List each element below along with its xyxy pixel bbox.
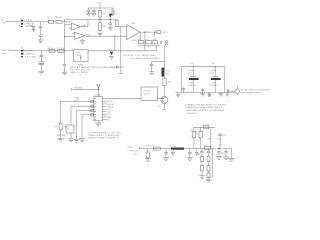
svg-text:CON10: CON10 xyxy=(94,95,102,97)
resistor R12 xyxy=(163,78,172,85)
capacitor C23 from node OUT xyxy=(217,149,220,157)
capacitor C40 xyxy=(188,63,199,92)
bead FB3 xyxy=(91,109,94,111)
ground below C11 xyxy=(62,72,68,75)
capacitor C8 xyxy=(39,35,43,40)
wire cap branch xyxy=(89,7,114,9)
wire J2 to gain box xyxy=(24,50,74,52)
svg-text:L1 10uH: L1 10uH xyxy=(145,145,153,147)
svg-text:GAIN = 1 + RB/RA: GAIN = 1 + RB/RA xyxy=(70,71,88,74)
wire node F stub xyxy=(154,32,156,36)
svg-text:2 RING NC: 2 RING NC xyxy=(24,23,35,25)
op-amp U1A xyxy=(65,23,86,30)
note text block psu xyxy=(186,103,227,114)
svg-text:10R: 10R xyxy=(196,154,200,156)
svg-text:SHORT AND TWIST ALL OF THE LEA: SHORT AND TWIST ALL OF THE LEADS xyxy=(186,109,225,112)
zobel box Z1 xyxy=(204,145,211,150)
ground C23 xyxy=(216,157,222,160)
ground below C2 xyxy=(86,14,91,16)
svg-text:35V: 35V xyxy=(188,73,192,75)
ground below arrow xyxy=(109,57,114,60)
wire U1A output xyxy=(81,20,89,27)
wire psu top branch xyxy=(152,61,165,63)
ground connector xyxy=(95,123,101,126)
wire stub at node A xyxy=(40,22,42,26)
resistor R11 xyxy=(54,124,69,130)
connector J1 xyxy=(21,18,24,27)
ground pin4 xyxy=(79,139,85,142)
capacitor sleeve bypass xyxy=(32,27,35,29)
capacitor C20 stub xyxy=(195,149,199,157)
chain x208.5: resistor R22 xyxy=(207,173,210,179)
wire R12 to Q1 xyxy=(164,86,166,97)
net arrow VB xyxy=(110,52,114,55)
wire U2 output xyxy=(140,31,157,33)
capacitor C4 xyxy=(111,8,115,13)
svg-text:35V: 35V xyxy=(210,73,214,75)
wire cap stub xyxy=(151,62,153,65)
connector right pin stubs xyxy=(103,99,107,120)
svg-text:R1 4k7: R1 4k7 xyxy=(56,17,63,19)
wire K1 to ground xyxy=(70,133,72,139)
wire pin3 drop xyxy=(76,110,78,139)
wire node D stub up xyxy=(155,46,157,51)
ground sleeve xyxy=(32,29,36,31)
capacitor C44 stub xyxy=(218,133,222,149)
wire C1 to R1 xyxy=(54,21,56,23)
capacitor C19 stub xyxy=(188,149,192,158)
svg-text:OUT: OUT xyxy=(217,138,222,140)
component row: capacitor C13 xyxy=(160,41,161,44)
wire U1B output to U2 xyxy=(85,35,127,37)
terminal bar Q1 xyxy=(163,109,166,111)
capacitor C12 xyxy=(117,66,118,69)
junction node OUT xyxy=(218,148,219,149)
svg-text:R13 4k7: R13 4k7 xyxy=(144,90,153,92)
component row: diode D1 xyxy=(138,39,144,44)
junction node G xyxy=(64,36,65,37)
wire R11 to ground xyxy=(60,130,62,138)
svg-text:OUT: OUT xyxy=(218,145,223,147)
note text U1 type xyxy=(123,54,161,60)
ground C44s xyxy=(225,93,229,97)
junction node E xyxy=(144,31,145,32)
wire J1 sleeve stub xyxy=(29,25,34,28)
wire mute chain xyxy=(70,106,72,125)
connector J3 xyxy=(94,95,103,121)
capacitor C41 xyxy=(210,63,221,92)
wire stub node C xyxy=(64,51,66,65)
resistor R7 (series) xyxy=(57,48,65,52)
bead FB1 xyxy=(91,100,94,102)
wire +15V rail xyxy=(99,4,101,11)
wire feed to J3 xyxy=(72,88,99,90)
svg-text:+ CAP: + CAP xyxy=(210,81,217,84)
connector J2 pin labels xyxy=(25,50,36,58)
svg-text:BIAS NET: BIAS NET xyxy=(57,134,67,137)
capacitor C16 electrolytic bar xyxy=(162,68,171,77)
wire IN-R to J2 xyxy=(11,50,21,52)
svg-text:TOGETHER.: TOGETHER. xyxy=(186,113,199,115)
pin name text column xyxy=(107,101,114,121)
terminal left xyxy=(139,147,140,150)
ground R11 xyxy=(58,138,64,141)
inductor L2 box xyxy=(202,124,211,128)
capacitor C2 xyxy=(87,8,91,13)
junction node F xyxy=(154,31,155,32)
resistor R23 input xyxy=(115,20,118,26)
net arrow VB top xyxy=(109,14,113,20)
note text gain xyxy=(70,66,118,74)
resistor R20 xyxy=(192,127,196,148)
wire IN-L to J1 xyxy=(6,20,21,22)
wire stub node B xyxy=(40,51,42,55)
ground below C5 xyxy=(108,28,113,30)
capacitor C18 stub xyxy=(171,149,175,157)
capacitor C24 stub xyxy=(224,149,227,157)
wire feedback drop xyxy=(144,32,146,51)
svg-text:2200/35: 2200/35 xyxy=(188,85,196,87)
inductor L1 dark bar xyxy=(171,148,184,150)
svg-text:OUT 1: OUT 1 xyxy=(162,32,169,34)
wire signal long to Q1 xyxy=(106,98,141,100)
capacitor C44s stub xyxy=(227,89,228,93)
wire R2 to node VB xyxy=(99,17,101,23)
text LED label xyxy=(241,90,250,95)
wire Q1 emitter xyxy=(163,104,165,110)
wire VG rail down xyxy=(120,27,122,73)
capacitor C10 electrolytic xyxy=(39,62,44,71)
svg-text:SPK+: SPK+ xyxy=(128,147,134,149)
wire R23 to U2 xyxy=(117,25,127,27)
capacitor C5 xyxy=(109,20,113,28)
resistor R3 xyxy=(99,23,107,30)
chain x202: capacitor C21 xyxy=(200,149,203,157)
relay K1 box xyxy=(66,125,74,133)
svg-text:BOARD WITH 16 AWG WIRE. KEEP I: BOARD WITH 16 AWG WIRE. KEEP IT xyxy=(186,106,223,109)
upper net wire xyxy=(194,126,215,128)
svg-text:+15V: +15V xyxy=(96,2,102,4)
wire connector ground xyxy=(97,121,99,123)
svg-text:GAIN: GAIN xyxy=(78,63,84,66)
connector J2 xyxy=(21,47,24,57)
svg-text:GND A: GND A xyxy=(107,103,114,106)
capacitor C43 stub xyxy=(201,88,204,92)
transistor Q1 xyxy=(157,97,168,109)
svg-text:3 SLV GND: 3 SLV GND xyxy=(25,56,36,58)
box R13 base network xyxy=(141,87,158,101)
wire C7 to C8 xyxy=(40,27,42,34)
component row: resistor R10 xyxy=(153,39,158,44)
bead FB4 xyxy=(91,114,94,116)
svg-text:SPK: SPK xyxy=(207,138,212,140)
wire VB bus turn down xyxy=(116,19,118,22)
wire component row bus xyxy=(139,45,161,47)
chain x202: resistor R17 xyxy=(201,162,204,176)
svg-text:CAPS HERE: CAPS HERE xyxy=(249,91,262,94)
wire gain box to U2 net xyxy=(88,50,156,52)
ground below R3 xyxy=(98,33,103,35)
ground K1 xyxy=(68,139,74,142)
wire pin4 drop xyxy=(81,115,83,139)
svg-text:VB REF: VB REF xyxy=(74,88,82,90)
svg-text:U2A: U2A xyxy=(131,22,136,25)
resistor R8 (series out) xyxy=(157,31,161,34)
ground C45 xyxy=(208,96,212,97)
ground below C14 xyxy=(164,44,168,46)
wire C9 to C10 xyxy=(40,57,42,62)
wire VG branch xyxy=(109,66,124,68)
svg-text:U1 = 4558 / TL072 / NE5532 DUA: U1 = 4558 / TL072 / NE5532 DUAL xyxy=(123,54,156,57)
potentiometer VR1 gain box xyxy=(74,50,88,67)
resistor R21 xyxy=(199,127,203,148)
ground C24 xyxy=(223,157,229,160)
wire pin2 left xyxy=(71,105,94,107)
node IN-L label xyxy=(1,20,7,25)
component row: diode D2 xyxy=(146,39,152,44)
wire J1 to C1 xyxy=(23,21,49,23)
ground below C8 xyxy=(38,40,44,43)
wire feedback ch2 drop xyxy=(114,36,116,51)
wire parallel x212.4 xyxy=(209,149,213,178)
junction dot VB bus xyxy=(110,19,111,20)
ground below C4 xyxy=(111,13,116,15)
wire pin4 left xyxy=(82,114,94,116)
note text small xyxy=(128,147,139,156)
op-amp U1B xyxy=(65,32,91,39)
svg-text:SEE TXT: SEE TXT xyxy=(130,151,139,153)
svg-text:CONNECT THE AMP BOARD TO THE P: CONNECT THE AMP BOARD TO THE PSU xyxy=(186,103,227,106)
wire rail x164.5 xyxy=(164,46,166,78)
op-amp U2 xyxy=(127,22,140,42)
wire VB drop left xyxy=(64,20,66,51)
terminal bar VG xyxy=(119,72,123,74)
ground pin3 xyxy=(74,139,80,142)
resistor R6 (series) xyxy=(48,48,55,52)
resistor R1 xyxy=(56,17,63,23)
wire R3 down xyxy=(99,30,101,33)
LED D3 xyxy=(229,85,240,96)
ground below C10 xyxy=(38,71,44,74)
chain x208.5: resistor R18 xyxy=(207,156,210,161)
wire psu bottom bus xyxy=(176,92,235,94)
capacitor C3 xyxy=(92,8,96,13)
wire pin1 left xyxy=(61,101,94,103)
ground U1B xyxy=(80,39,85,43)
wire L2 drop xyxy=(209,129,211,149)
svg-text:8R: 8R xyxy=(221,153,224,155)
junction node H xyxy=(114,36,115,37)
resistor R14 (series) xyxy=(153,147,160,150)
capacitor C11 xyxy=(63,65,67,72)
wire pin3 left xyxy=(77,109,94,111)
component row: capacitor C14 xyxy=(165,41,168,44)
svg-text:U2 = LM1875 / TDA2050 AMP IC: U2 = LM1875 / TDA2050 AMP IC xyxy=(130,57,161,60)
junction node J3 feed xyxy=(98,89,99,90)
stub box R15 xyxy=(146,149,149,159)
chain x208.5: capacitor C22 xyxy=(207,149,210,157)
capacitor C42 stub xyxy=(182,87,185,92)
ground rail end xyxy=(228,156,235,161)
wire bus VB top xyxy=(65,19,117,21)
bead FB2 xyxy=(91,105,94,107)
capacitor C7 xyxy=(39,26,43,27)
capacitor C1 (series) xyxy=(47,17,54,23)
terminal feed left xyxy=(71,88,73,90)
junction node VB xyxy=(99,19,100,20)
resistor R2 xyxy=(99,10,107,17)
wire left leg xyxy=(181,67,183,93)
node IN-R label xyxy=(2,50,14,55)
svg-text:2 RING NC: 2 RING NC xyxy=(25,54,36,56)
ground C43 xyxy=(200,93,205,97)
svg-text:(5 AND UP WIRE 1 TO A PAD 2): (5 AND UP WIRE 1 TO A PAD 2) xyxy=(88,136,118,139)
text aux label xyxy=(74,98,79,102)
ground below C3 xyxy=(92,14,97,16)
wire bias chain xyxy=(60,102,62,124)
ground C19 xyxy=(187,158,193,161)
svg-text:D3 LED: D3 LED xyxy=(241,90,249,92)
capacitor C45 stub xyxy=(208,93,211,96)
chain x208.5: resistor R19 xyxy=(207,162,210,173)
svg-text:C1 1u: C1 1u xyxy=(47,17,53,19)
main output rail wire xyxy=(140,148,231,150)
svg-text:MUTE: MUTE xyxy=(144,94,151,96)
connector J1 pin labels xyxy=(24,20,35,28)
net arrow to J3 xyxy=(97,85,101,97)
ground chain x202 xyxy=(199,176,205,179)
ground bus left xyxy=(176,93,181,97)
capacitor C9 xyxy=(40,55,44,56)
chain x202: resistor R16 xyxy=(201,156,204,161)
ground below C15 xyxy=(149,72,155,75)
svg-text:NC: NC xyxy=(107,119,111,121)
ground R15 xyxy=(145,159,151,162)
svg-text:2200/35: 2200/35 xyxy=(210,85,218,87)
note text right xyxy=(249,90,271,95)
ground bus mid xyxy=(219,93,224,97)
wire row left riser xyxy=(139,32,141,41)
capacitor C17 stub xyxy=(164,149,168,158)
wire right leg xyxy=(224,67,226,93)
wire filter top bus xyxy=(182,66,225,68)
ground chain x208.5 xyxy=(206,179,212,182)
wire R1 to U1A xyxy=(62,21,72,23)
wire rail end drop xyxy=(231,149,233,157)
capacitor C15 xyxy=(150,65,154,72)
ground C17 xyxy=(163,158,169,161)
